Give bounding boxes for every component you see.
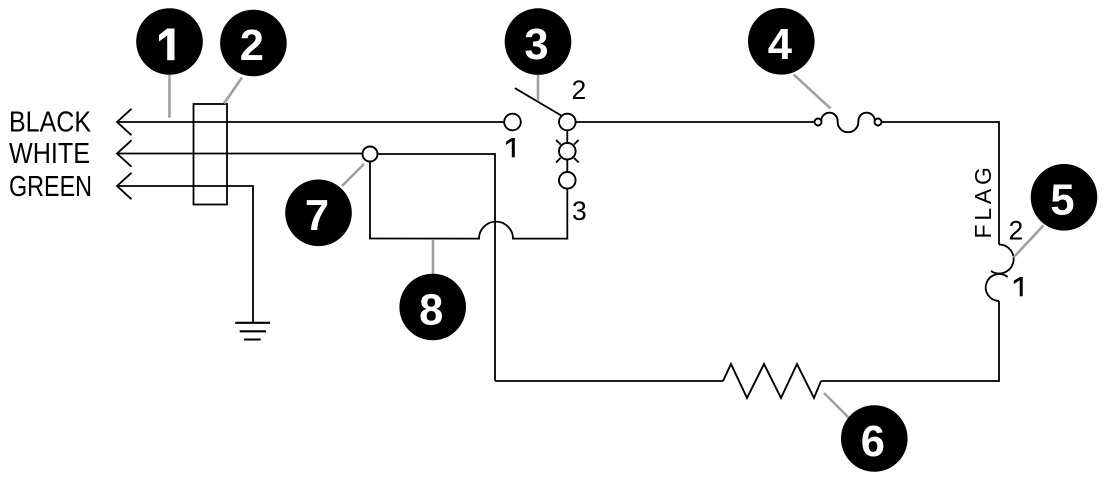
callout 6 bubble (841, 405, 908, 472)
wire white from node to right corner and down (378, 154, 496, 381)
callout 1 digit (159, 29, 175, 61)
svg-text:WHITE: WHITE (9, 138, 90, 170)
thermal fuse left terminal (815, 119, 822, 126)
wire pin2 to lamp (566, 130, 568, 143)
callout 7 leader (342, 164, 364, 186)
callout 5 bubble (1031, 164, 1098, 231)
strain relief bushing (item 2 rectangle) (194, 104, 228, 205)
svg-text:2: 2 (240, 22, 264, 70)
wire BLACK (hot) from arrow to switch pin 1 (117, 121, 505, 123)
arrow BLACK lead (117, 109, 132, 135)
thermal fuse right terminal (875, 119, 882, 126)
switch pin 2 circle (559, 114, 576, 131)
thermal fuse element wave (821, 113, 875, 133)
svg-text:BLACK: BLACK (9, 107, 91, 139)
callout 7 bubble (285, 180, 352, 247)
svg-text:3: 3 (572, 196, 587, 226)
flag terminal pin 2 hook (991, 244, 1014, 273)
svg-text:5: 5 (1050, 177, 1074, 225)
callout 4 bubble (748, 8, 815, 75)
callout 1 leader (168, 75, 171, 118)
callout 8 leader (432, 240, 435, 274)
wire resistor to bottom left corner (495, 380, 723, 382)
wire WHITE lead from arrow to node (117, 153, 363, 155)
callout 6 leader (824, 393, 851, 420)
flag terminal pin 1 hook (986, 274, 1008, 301)
svg-text:2: 2 (1009, 216, 1024, 246)
lamp rays (556, 140, 579, 163)
resistor heating element (723, 364, 821, 398)
switch lever (515, 88, 561, 115)
indicator lamp circle between switch pins (559, 143, 576, 160)
svg-text:2: 2 (572, 75, 587, 105)
svg-text:3: 3 (524, 21, 548, 69)
callout 5 leader (1014, 225, 1044, 257)
svg-text:FLAG: FLAG (970, 167, 996, 239)
wire GREEN lead from arrow to ground drop (117, 186, 253, 322)
callout 8 bubble (399, 274, 466, 341)
switch pin 3 circle (559, 172, 576, 189)
wire fuse to right corner, down to flag terminal 2 (882, 122, 1000, 245)
wire flag pin1 down to bottom right corner then left to resistor (821, 301, 999, 381)
ground (235, 323, 270, 340)
callout 1 bubble (136, 8, 203, 75)
svg-text:7: 7 (305, 192, 329, 240)
switch pin 1 circle (504, 114, 521, 131)
svg-text:6: 6 (861, 418, 885, 466)
callout 3 leader (537, 75, 540, 101)
callout 4 leader (794, 75, 831, 109)
svg-text:4: 4 (768, 21, 792, 69)
pin label 1 (flag) (1014, 277, 1023, 296)
svg-text:8: 8 (419, 286, 443, 334)
callout 2 bubble (220, 10, 287, 77)
callout 2 leader (224, 78, 242, 104)
pin label 1 (switch) (506, 138, 515, 157)
wire lamp to pin3 (566, 159, 568, 172)
svg-text:GREEN: GREEN (9, 171, 92, 203)
arrow WHITE lead (117, 140, 132, 166)
arrow GREEN lead (117, 173, 132, 199)
node (item 7 terminal) on white wire (363, 147, 378, 162)
wire thermostat loop: node down, along bottom with crossover hump, up to switch pin 3 (370, 162, 567, 239)
callout 3 bubble (505, 8, 572, 75)
wire pin2 to fuse (575, 121, 814, 123)
